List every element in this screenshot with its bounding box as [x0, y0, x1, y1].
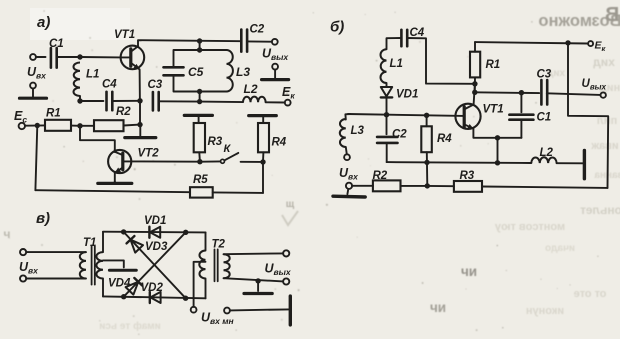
transistor VT1 (a): [114, 29, 144, 70]
node ring bottom right: [183, 296, 188, 301]
svg-text:оньлет: оньлет: [580, 203, 620, 217]
svg-text:C3: C3: [537, 69, 552, 81]
diode VD3: [127, 236, 143, 253]
resistor R2 (a): [94, 106, 131, 131]
terminal Uvyh bottom (v): [283, 278, 289, 284]
resistor R2 (b): [373, 170, 401, 191]
capacitor C1 (b): [509, 92, 551, 138]
svg-text:VD3: VD3: [145, 241, 168, 253]
wire Ek return: [568, 43, 608, 188]
svg-text:ч: ч: [4, 227, 11, 241]
wire C3 to tank node: [159, 100, 200, 102]
ground above R4: [249, 116, 277, 123]
wire L1 to lower rail: [79, 96, 81, 101]
wire R1 to node B: [71, 125, 80, 127]
wire base rail: [345, 114, 464, 120]
wire L2 to Ek: [266, 101, 285, 103]
wire T1 sec bottom to ring: [102, 279, 104, 297]
terminal Uvx top (v): [20, 249, 26, 255]
node tank bottom box junction: [197, 89, 202, 94]
inductor L1 (b): [380, 49, 402, 83]
wire node to R3: [427, 185, 454, 187]
terminal Ec: [19, 123, 25, 129]
wire C2 to output: [247, 40, 271, 42]
node R4 bottom junction: [260, 159, 265, 164]
wire tank node to L2: [200, 101, 243, 104]
wire VT1 emitter (b): [473, 129, 521, 138]
node R1 bottom junction: [472, 81, 477, 86]
svg-text:б): б): [330, 19, 344, 36]
label Ec: [14, 109, 27, 125]
svg-text:R3: R3: [208, 136, 223, 148]
label Uvx (v): [19, 260, 39, 276]
label T2: [212, 239, 226, 251]
terminal Uvyh (b): [601, 92, 606, 97]
node C junction: [137, 98, 142, 103]
svg-text:L2: L2: [540, 147, 554, 159]
inductor L3 (a): [200, 50, 251, 92]
transformer T2 secondary: [224, 254, 230, 278]
resistor R3: [194, 123, 223, 152]
node ring top right: [183, 230, 188, 235]
capacitor C5: [164, 50, 204, 92]
svg-text:R4: R4: [437, 133, 452, 145]
resistor R1 (b): [470, 52, 500, 78]
circuit label в): [36, 210, 50, 227]
chassis bar (b right): [583, 150, 586, 178]
diode VD1 (b): [381, 87, 419, 101]
wire node C to R2 node: [139, 101, 141, 125]
resistor R5: [190, 174, 213, 198]
wire R4 node down: [262, 162, 264, 193]
wire ring right top: [205, 232, 207, 250]
svg-text:VD2: VD2: [141, 282, 164, 294]
transformer T2 core: [215, 249, 218, 281]
terminal Uvx mn (v): [224, 308, 230, 314]
node R3 bottom junction: [197, 159, 202, 164]
wire Uvx mn to chassis: [230, 309, 289, 310]
node R4 top junction: [424, 113, 429, 118]
wire T2 sec bottom to Uvyh: [224, 278, 284, 281]
wire R1 bottom: [474, 77, 476, 92]
capacitor C3 (b): [537, 69, 552, 105]
node emitter junction: [495, 135, 500, 140]
wire VT1 collector up: [138, 40, 241, 46]
inductor L2 (b): [531, 147, 556, 163]
label Uvyh (v): [265, 262, 292, 278]
node L1-rail junction: [77, 98, 82, 103]
transformer T1 secondary: [96, 252, 103, 278]
label VD2 (v): [141, 282, 164, 294]
terminal L3 (b): [344, 154, 350, 160]
wire tank bottom stem: [199, 92, 201, 102]
resistor R4 (b): [421, 115, 452, 152]
capacitor C4 (b): [401, 27, 424, 46]
node tank bottom rail junction: [197, 99, 202, 104]
svg-text:от оте: от оте: [574, 288, 607, 300]
svg-text:L2: L2: [244, 82, 258, 96]
wire T1 sec top to ring: [102, 232, 104, 252]
terminal Ek (b): [588, 41, 593, 46]
node Ek junction (b): [565, 40, 570, 45]
ground (a input): [20, 88, 47, 98]
svg-text:T2: T2: [212, 239, 226, 251]
switch K: [203, 143, 260, 163]
wire tank top stem: [199, 41, 201, 50]
terminal Ek (a): [285, 100, 291, 106]
terminal tap (v): [191, 307, 197, 313]
wire VT1 emitter down: [139, 70, 141, 101]
wire VT1 base: [80, 56, 121, 58]
wire VT2 collector to K node: [131, 160, 200, 162]
node tank top box junction: [197, 47, 202, 52]
svg-text:чи: чи: [461, 264, 477, 279]
label Ek (b): [595, 40, 607, 54]
wire emitter to middle rail: [497, 138, 499, 163]
inductor L1: [73, 63, 99, 97]
svg-text:монтсов тюу: монтсов тюу: [494, 221, 565, 233]
wire node B to R2: [80, 125, 94, 127]
wire bottom rail left: [35, 190, 190, 192]
ground terminal below Uvx (a): [30, 83, 36, 89]
wire C4 left: [387, 38, 402, 49]
wire R4 to bottom rail: [426, 152, 429, 186]
resistor R1: [45, 108, 71, 131]
wire Uvx to R2: [352, 185, 373, 187]
wire T2 sec top to Uvyh: [224, 252, 284, 255]
svg-text:щ: щ: [286, 199, 295, 210]
wire R3 to corner: [482, 187, 608, 188]
svg-text:VT1: VT1: [483, 104, 504, 116]
ground (T1 tap): [109, 269, 136, 272]
terminal Uvx bottom (v): [20, 275, 26, 281]
wire L3 to terminal: [346, 147, 347, 154]
ground above R3: [184, 115, 212, 123]
wire R2 to node C2g: [124, 124, 141, 127]
wire L1 to VD1: [386, 83, 388, 87]
circuit label а): [37, 14, 50, 31]
wire top rail (b): [475, 42, 588, 43]
chassis bar (v right): [289, 296, 292, 325]
wire ring bottom edge: [103, 296, 206, 298]
wire VT2 top lead: [114, 150, 116, 152]
svg-text:L3: L3: [236, 65, 250, 79]
node output ground junction: [255, 278, 260, 283]
capacitor C2 (b): [377, 115, 407, 162]
wire middle rail: [387, 161, 532, 164]
label Uvyh (a): [262, 47, 289, 63]
svg-text:L3: L3: [351, 125, 365, 137]
T2 center tap: [194, 262, 206, 307]
capacitor C2 (a): [241, 24, 265, 52]
wire VT2 emitter down: [114, 173, 116, 182]
svg-text:C5: C5: [188, 65, 204, 79]
svg-text:R1: R1: [46, 108, 61, 120]
node Ec junction: [35, 123, 40, 128]
capacitor C3 (a): [148, 79, 163, 110]
label VD1 (v): [144, 215, 166, 227]
ground (R2): [125, 125, 156, 138]
wire L2 to chassis: [557, 162, 583, 164]
wire node B down: [80, 126, 115, 150]
transistor VT1 (b): [455, 104, 503, 130]
svg-text:C2: C2: [392, 129, 407, 141]
svg-text:имаф те ьси: имаф те ьси: [99, 320, 161, 332]
wire ring top edge: [103, 231, 206, 234]
wire C1 to node A: [57, 56, 80, 58]
transformer T1 primary: [80, 252, 86, 278]
svg-text:R2: R2: [373, 170, 388, 182]
label VD3: [145, 241, 168, 253]
T1 center tap: [103, 260, 124, 267]
svg-text:T1: T1: [83, 237, 96, 249]
svg-text:L1: L1: [86, 69, 99, 81]
node bottom rail junction (b): [425, 183, 430, 188]
svg-text:L1: L1: [390, 58, 403, 70]
svg-text:В: В: [605, 4, 619, 26]
node emitter middle rail junction: [495, 160, 500, 165]
wire C3 to Uvyh: [547, 93, 601, 95]
svg-text:VT2: VT2: [138, 148, 160, 160]
diode VD4: [126, 278, 143, 295]
wire diagonal A: [124, 232, 186, 298]
svg-text:R1: R1: [486, 59, 501, 71]
svg-text:R2: R2: [116, 106, 131, 118]
node R4 middle rail junction: [424, 160, 429, 165]
wire Ec to node: [25, 124, 45, 126]
label T1: [83, 237, 96, 249]
ground (b input): [333, 189, 365, 197]
node R2 right junction: [137, 122, 142, 127]
svg-text:иваж: иваж: [591, 140, 618, 152]
terminal Uvx (b): [346, 183, 352, 189]
svg-text:C1: C1: [49, 38, 64, 50]
svg-text:C3: C3: [148, 79, 163, 91]
svg-text:VD1: VD1: [144, 215, 166, 227]
capacitor C1: [49, 38, 64, 68]
resistor R4 (a): [258, 123, 287, 152]
svg-text:R5: R5: [193, 174, 208, 186]
svg-text:ичадо: ичадо: [545, 243, 575, 254]
wire Ec node down: [35, 126, 37, 191]
label Uvx (a): [27, 65, 47, 81]
diode VD2 (v): [150, 292, 161, 303]
label VD4: [108, 278, 131, 290]
wire R3 down: [198, 152, 201, 161]
terminal Uvyh top (v): [283, 250, 289, 256]
svg-text:C4: C4: [102, 79, 117, 91]
inductor L2 (a): [243, 82, 266, 102]
label Ek (a): [282, 85, 295, 101]
wire bottom rail right: [213, 191, 263, 194]
node A junction: [77, 54, 82, 59]
transistor VT2: [108, 148, 159, 174]
node C1 top junction: [519, 90, 524, 95]
circuit label б): [330, 19, 344, 36]
wire VD1 to base rail: [386, 97, 388, 114]
wire C4 right: [407, 38, 475, 84]
svg-text:C1: C1: [537, 112, 552, 124]
terminal Uvx (a): [30, 54, 36, 60]
wire C4 to node C: [112, 100, 140, 102]
svg-text:чи: чи: [430, 300, 446, 315]
node B junction: [77, 123, 82, 128]
diode VD1 (v): [149, 227, 160, 238]
svg-text:R4: R4: [272, 137, 287, 149]
transformer T2 primary: [199, 251, 205, 279]
svg-text:C2: C2: [250, 24, 265, 36]
wire Uvx bottom to T1: [26, 278, 86, 280]
svg-text:иконун: иконун: [526, 305, 564, 317]
capacitor C4 (a): [102, 79, 117, 111]
svg-text:а): а): [37, 14, 50, 31]
label Uvx mn: [201, 311, 234, 327]
svg-text:VT1: VT1: [114, 29, 135, 41]
svg-text:VD1: VD1: [396, 89, 418, 101]
wire VT1 collector (b): [474, 84, 475, 105]
resistor R3 (b): [454, 170, 482, 192]
ground (a output): [262, 70, 289, 80]
node ring bottom left: [121, 294, 126, 299]
transformer T1 core: [92, 246, 95, 284]
wire R1 top: [474, 42, 476, 52]
svg-text:R3: R3: [460, 170, 475, 182]
wire Uvx to C1: [36, 56, 46, 58]
label Uvx (b): [339, 166, 359, 182]
svg-text:хид: хид: [593, 55, 615, 69]
label Uvyh (b): [582, 78, 607, 92]
wire R2 to node: [401, 185, 428, 187]
wire diagonal B: [124, 232, 186, 296]
wire ring right bottom: [205, 279, 207, 299]
wire Uvx top to T1: [26, 251, 86, 253]
svg-text:в): в): [36, 210, 50, 227]
ground (VT2): [98, 181, 132, 183]
terminal Uvyh (a): [272, 39, 278, 45]
inductor L3 (b): [340, 119, 365, 147]
ground terminal Uvyh (a): [272, 64, 278, 70]
ground (v output): [244, 281, 272, 294]
wire R4 down: [262, 152, 264, 162]
node tank top rail junction: [197, 38, 202, 43]
wire node A rail segment: [80, 100, 103, 102]
node ring top left: [121, 229, 126, 234]
node VD1 junction: [384, 112, 389, 117]
wire C3 rail: [475, 91, 539, 94]
node C3 rail junction: [472, 90, 477, 95]
